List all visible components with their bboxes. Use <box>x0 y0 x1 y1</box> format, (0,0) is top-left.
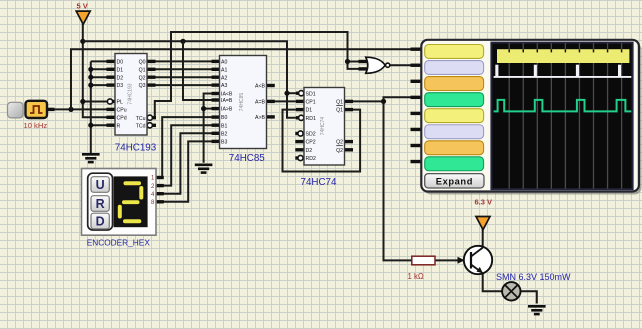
svg-text:B1: B1 <box>221 123 227 129</box>
svg-text:Q3: Q3 <box>139 83 146 89</box>
svg-text:IA<B: IA<B <box>221 92 233 98</box>
svg-text:B0: B0 <box>221 115 227 121</box>
svg-text:Q2: Q2 <box>336 148 343 154</box>
svg-text:D: D <box>96 215 105 229</box>
svg-text:R: R <box>117 123 121 129</box>
svg-text:D1: D1 <box>306 108 313 114</box>
svg-text:A<B: A<B <box>255 84 265 90</box>
svg-text:CP1: CP1 <box>306 100 316 106</box>
svg-text:TCu: TCu <box>136 116 146 122</box>
svg-text:74HC193: 74HC193 <box>115 143 157 154</box>
svg-text:Q1: Q1 <box>139 67 146 73</box>
svg-text:5 V: 5 V <box>77 1 88 10</box>
svg-text:74HC85: 74HC85 <box>229 153 265 164</box>
svg-text:B3: B3 <box>221 140 227 146</box>
svg-text:A>B: A>B <box>255 115 265 121</box>
svg-text:Q2: Q2 <box>139 75 146 81</box>
svg-text:IA>B: IA>B <box>221 107 233 113</box>
svg-text:A=B: A=B <box>255 100 265 106</box>
svg-text:Q1: Q1 <box>336 100 343 106</box>
svg-text:IA=B: IA=B <box>221 98 233 104</box>
svg-text:1 kΩ: 1 kΩ <box>408 272 424 281</box>
svg-text:74HC193: 74HC193 <box>128 83 134 104</box>
svg-text:D3: D3 <box>117 83 124 89</box>
svg-text:74HC74: 74HC74 <box>320 117 326 136</box>
svg-text:A0: A0 <box>221 60 227 66</box>
svg-text:TCd: TCd <box>136 123 146 129</box>
svg-text:D1: D1 <box>117 67 124 73</box>
svg-text:U: U <box>96 178 105 192</box>
svg-text:RD1: RD1 <box>306 116 316 122</box>
svg-text:CP2: CP2 <box>306 140 316 146</box>
svg-text:SD2: SD2 <box>306 132 316 138</box>
svg-text:SD1: SD1 <box>306 91 316 97</box>
svg-text:A2: A2 <box>221 75 227 81</box>
svg-text:74HC85: 74HC85 <box>239 93 245 112</box>
svg-text:RD2: RD2 <box>306 156 316 162</box>
svg-text:A3: A3 <box>221 83 227 89</box>
svg-text:Q1: Q1 <box>336 108 343 114</box>
svg-text:B2: B2 <box>221 131 227 137</box>
svg-text:74HC74: 74HC74 <box>301 177 337 188</box>
svg-text:R: R <box>96 197 105 211</box>
svg-text:Expand: Expand <box>436 176 473 186</box>
svg-text:D2: D2 <box>117 75 124 81</box>
svg-text:10 kHz: 10 kHz <box>24 121 48 130</box>
svg-text:D2: D2 <box>306 148 313 154</box>
svg-text:PL: PL <box>117 100 123 106</box>
svg-text:SMN 6.3V 150mW: SMN 6.3V 150mW <box>496 272 571 282</box>
svg-text:D0: D0 <box>117 60 124 66</box>
svg-text:Q0: Q0 <box>139 60 146 66</box>
svg-text:A1: A1 <box>221 67 227 73</box>
svg-text:CPd: CPd <box>117 115 127 121</box>
svg-text:ENCODER_HEX: ENCODER_HEX <box>87 237 151 247</box>
svg-text:6.3 V: 6.3 V <box>475 197 493 206</box>
svg-text:Q2: Q2 <box>336 140 343 146</box>
svg-text:CPu: CPu <box>117 108 127 114</box>
